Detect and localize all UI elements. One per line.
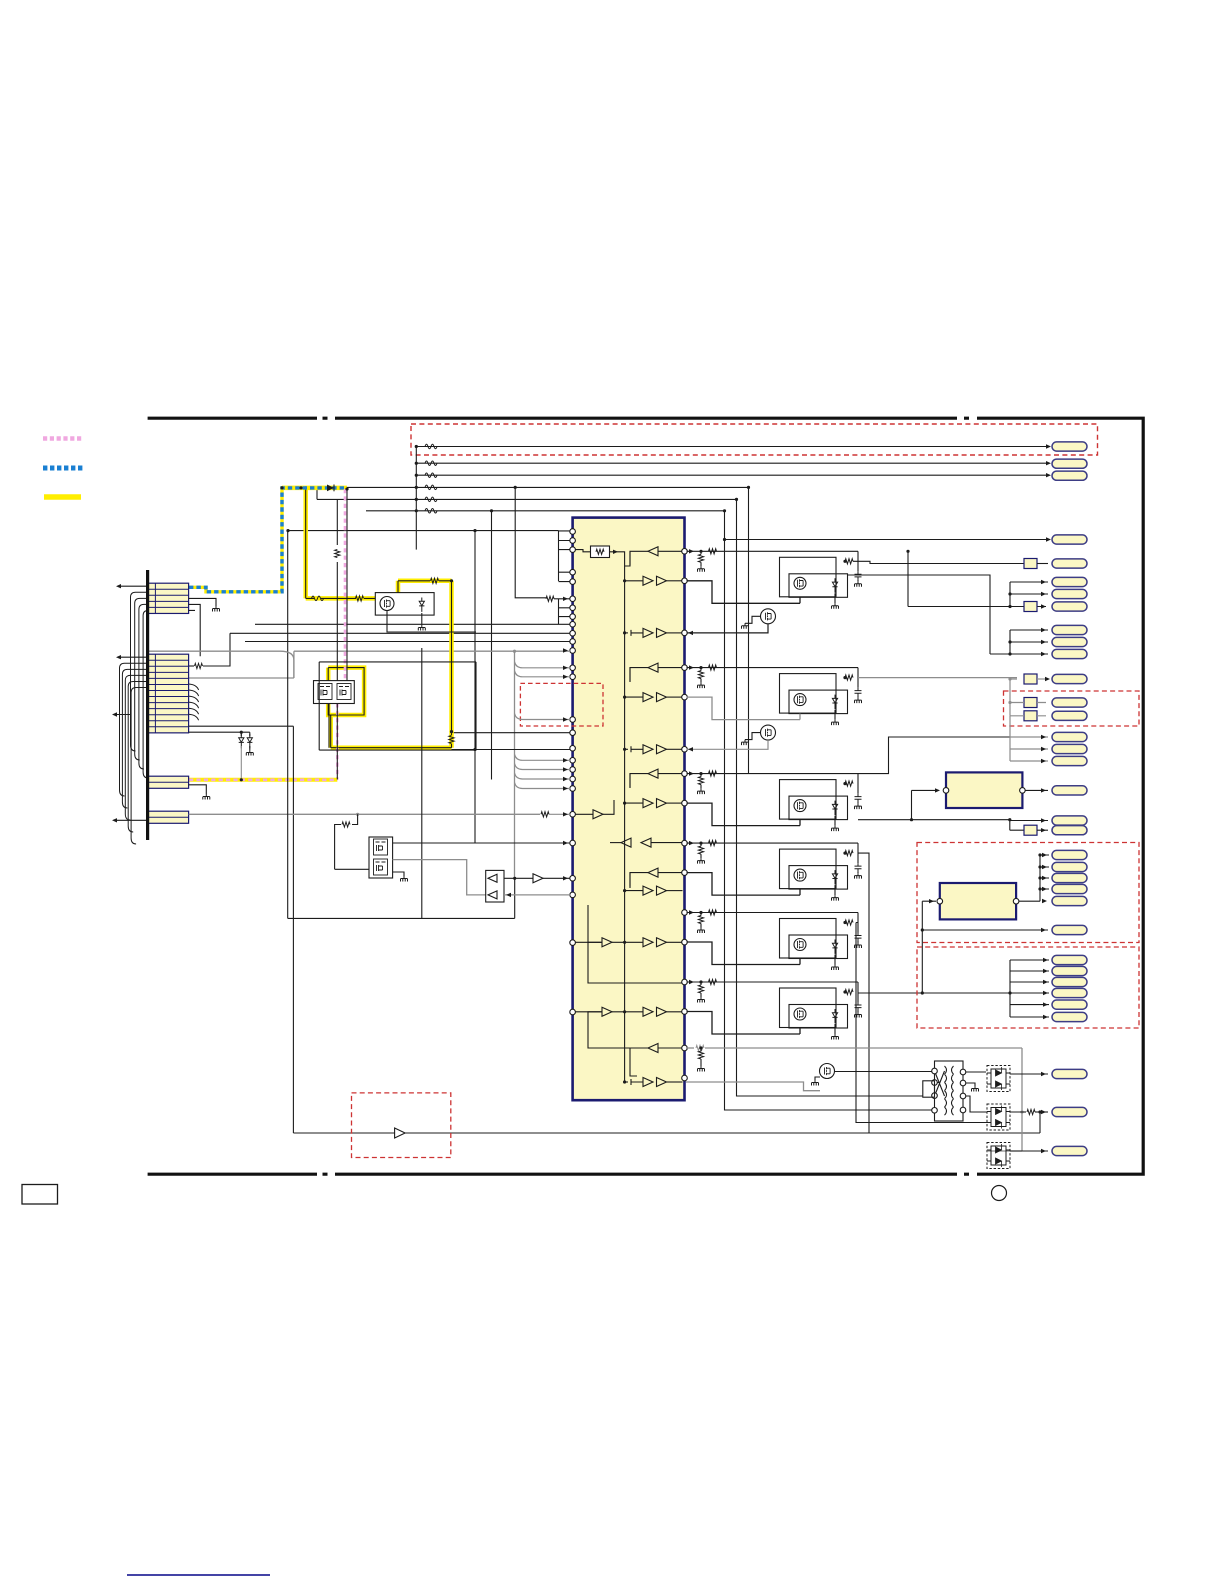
IC internal feed elbows (588, 905, 682, 1076)
connector pill F2 (1052, 862, 1087, 871)
connector pill F5 (1052, 896, 1087, 905)
IC internal buffer row y803 (643, 799, 653, 808)
ground below zener (246, 750, 253, 756)
IC left pin y942 (570, 940, 576, 946)
transformer right pins (960, 1069, 966, 1075)
test point square TP1 (1024, 559, 1037, 569)
IC internal buffer row y842 (621, 838, 631, 847)
IC internal buffer row y942 (602, 938, 612, 947)
IC internal buffer row y551 (648, 547, 658, 556)
wire receiver out to x514 and buffer to IC (504, 877, 533, 879)
gray net from C2 to IC pin 650 (189, 651, 570, 678)
wire branch to CN pill at y540 (725, 539, 1049, 541)
connector pill A0 (1052, 559, 1087, 568)
gray jog x1022 to resistor pill2 (1022, 1111, 1026, 1113)
IC left pin y598 (570, 596, 576, 602)
top red dashed highlight box (411, 424, 1098, 455)
wire G group feed (1009, 960, 1011, 1017)
wire CN4 branch resistor down to dual mosfet box2 (352, 814, 358, 824)
IC internal buffer row y632 (631, 630, 643, 636)
ground below dual box2 (393, 872, 404, 876)
IC left pin y624 (570, 622, 576, 628)
connector pill G5 (1052, 1000, 1087, 1009)
IC left pin y894 (570, 892, 576, 898)
connector pill B1 (1052, 625, 1087, 634)
zener pair to ground and to pink net (239, 734, 244, 748)
IC right pin y1078 (682, 1075, 688, 1081)
IC left pin y719 (570, 717, 576, 723)
IC right pin y872 (682, 870, 688, 876)
wire y1133 up to pill2 line (1039, 1112, 1041, 1133)
IC right pin y551 (682, 549, 688, 555)
connector pill E5 (1052, 816, 1087, 825)
wire feeds into TP4 TP5 (1010, 679, 1046, 716)
wire top bundle line 6 with ferrite bead (415, 509, 418, 512)
IC right pin y632 (682, 630, 688, 636)
yellow highlighted net upper route (282, 488, 452, 748)
wire T1 secondary to photocoupler1 (966, 1071, 986, 1073)
connector pill D1 (1052, 698, 1087, 707)
frame left border redraw over connectors (146, 570, 149, 840)
wire CN2 row1 left with arrow (118, 656, 148, 658)
connector pill G6 (1052, 1012, 1087, 1021)
MOSFET circuit box upper-left Q1 (375, 593, 434, 616)
gray net cell2 to square pill y679 (858, 677, 1017, 679)
connector pill A2 (1052, 589, 1087, 598)
connector pill E1 (1052, 732, 1087, 741)
wire cell1 feed to pill group rows 582-606 (908, 551, 1048, 606)
gray vertical bus left of IC with curved pin feeds (514, 651, 516, 878)
test point square TP2 (1024, 602, 1037, 612)
wire CN4 row2 left with arrow (114, 819, 148, 821)
CN1 row stubs right (189, 604, 201, 656)
revision circle bottom right (992, 1186, 1007, 1201)
connector pill E2 (1052, 744, 1087, 753)
IC left pin y572 (570, 569, 576, 575)
IC left pin y769 (570, 767, 576, 773)
wire vertical x515 from line4 to IC pin 598 (515, 487, 546, 597)
transformer cross wires (935, 1071, 945, 1096)
connector CN top3 (1052, 471, 1087, 480)
connector pill H1 (1052, 1069, 1087, 1078)
driver cell 2 (Q, zener, cap) (687, 667, 859, 669)
IC internal buffer row y773 (648, 769, 658, 778)
connector pill H2 (1052, 1107, 1087, 1116)
IC left pin y650 (570, 648, 576, 654)
IC right pin y580 (682, 578, 688, 584)
test point square TP3 (1024, 674, 1037, 684)
connector pill C1 (1052, 674, 1087, 683)
IC right pin y843 (682, 840, 688, 846)
IC right pin y982 (682, 979, 688, 985)
gray net box2 to dual receiver box (393, 860, 486, 895)
wire box2 to IC pin 843 (393, 842, 570, 844)
IC left pin y641 (570, 639, 576, 645)
ground stub right of CN1 (189, 598, 216, 606)
test point square TP6 (1024, 825, 1037, 835)
connector pill B2 (1052, 637, 1087, 646)
red dashed box right F (917, 843, 1139, 943)
connector CN1 (5-pin) (148, 583, 189, 613)
buffer triangle on bottom long line y1133 (395, 1128, 406, 1138)
connector CN4 (2-pin) (148, 811, 189, 823)
vertical B x293 down to bottom line (293, 726, 1040, 1133)
connector pill F4 (1052, 884, 1087, 893)
connector pill E4 (1052, 786, 1087, 795)
IC left pin y540 (570, 538, 576, 544)
driver cell 1 (Q, zener, cap) (687, 550, 859, 552)
IC left pin y788 (570, 786, 576, 792)
IC internal buffer row y890 (643, 886, 653, 895)
wire C2 row to resistor stub (189, 665, 194, 667)
connector pill E3 (1052, 756, 1087, 765)
wire line5 to vertical x736 (317, 499, 923, 1096)
test point square TP4 (1024, 698, 1037, 708)
transformer left pins (932, 1068, 938, 1074)
dual MOSFET box Q-pair upper (314, 681, 355, 704)
IC internal red dashed box (520, 683, 603, 726)
connector pill G3 (1052, 977, 1087, 986)
photocoupler PC1 (987, 1066, 1010, 1092)
IC left pin y1012 (570, 1009, 576, 1015)
IC left pin y843 (570, 840, 576, 846)
IC left pin y531 (570, 529, 576, 535)
connector CN3 (2-pin) (148, 776, 189, 788)
wire into IC pin 732 (450, 732, 570, 734)
dual receiver triangle box (486, 870, 504, 902)
wire Q1 gate down (387, 611, 476, 633)
IC internal buffer row y697 (643, 693, 653, 702)
IC left pin y814 (570, 812, 576, 818)
IC left pin y779 (570, 776, 576, 782)
driver cell 4 (Q, zener, cap) (687, 842, 859, 844)
connector pill D2 (1052, 711, 1087, 720)
wire line6 to vertical x724 (366, 511, 933, 1110)
wire Q7 drain to transformer (835, 1071, 934, 1073)
relay block 2 yellow (946, 772, 1022, 808)
driver cell 5 (Q, zener, cap) (687, 912, 859, 914)
legend yellow net swatch (44, 494, 81, 500)
IC right pin y773 (682, 771, 688, 777)
wire cell5 out right (856, 923, 988, 1123)
wire block2 out to pill (1025, 789, 1048, 791)
wire vertical x421 long (421, 648, 423, 918)
wire cell6 out to block1 feed net (858, 901, 1010, 993)
legend blue dashed net swatch (43, 466, 83, 471)
ground below CN3 (189, 785, 207, 794)
IC internal buffer row y872 (648, 868, 658, 877)
black verticals beside pink (329, 489, 347, 780)
IC right pin y1048 (682, 1045, 688, 1051)
IC left pin y607 (570, 605, 576, 611)
test point square TP5 (1024, 711, 1037, 721)
wire stub rows into IC pins 607-616 (559, 599, 571, 625)
IC internal resistor box WV (591, 546, 610, 558)
IC left pin y760 (570, 758, 576, 764)
IC left pin y616 (570, 614, 576, 620)
connector pill B3 (1052, 649, 1087, 658)
IC right pin y667 (682, 665, 688, 671)
schematic border frame (148, 418, 1144, 1174)
transformer T1 (935, 1061, 964, 1121)
IC right pin y697 (682, 694, 688, 700)
bottom MOSFET Q7 (820, 1064, 835, 1079)
IC left pin y748 (570, 746, 576, 752)
gray net IC pin1082 to bottom MOSFET (686, 1082, 820, 1091)
connector pill F3 (1052, 873, 1087, 882)
wire CN2 row12 to vertical x293 (189, 725, 294, 727)
pink dashed net route (189, 489, 345, 780)
yellow underlay beneath blue route (189, 488, 347, 592)
wire CN1 row1 left with arrow (118, 585, 148, 587)
IC main block (573, 518, 685, 1101)
gray wire upper left bend (148, 651, 294, 678)
footer link underline (127, 1574, 270, 1576)
ground below Q1 box (421, 613, 423, 625)
connector CN top2 (1052, 459, 1087, 468)
wire y930 single pill from x922 (922, 929, 1048, 931)
page box bottom left (22, 1185, 58, 1205)
gray net IC pin1048 to right column (686, 1047, 694, 1049)
wire top bundle line 1 with ferrite bead (416, 446, 1048, 448)
wire vertical x475 long (474, 531, 476, 843)
connector pill A3 (1052, 602, 1087, 611)
IC internal buffer row y1082 (631, 1079, 643, 1085)
wire top bundle line 2 with ferrite bead (416, 462, 1048, 464)
wire top bundle line 5 with ferrite bead (415, 498, 418, 501)
wire top bundle line 4 with ferrite bead (415, 486, 418, 489)
wire short stub line5-left elbow (316, 487, 318, 499)
red dashed box right mid (1004, 691, 1140, 726)
wire feeds group E (1010, 716, 1048, 761)
wire block1 out to pills (1019, 855, 1049, 901)
IC internal buffer row y580 (643, 576, 653, 585)
IC right pin y749 (682, 747, 688, 753)
blue dashed net route (189, 488, 347, 592)
IC right pin y803 (682, 800, 688, 806)
wire loop rectangle around yellow area (319, 662, 476, 750)
transformer right pin2 to ground (966, 1083, 975, 1086)
photocoupler PC3 (987, 1143, 1010, 1169)
connector pill G2 (1052, 966, 1087, 975)
wire bus vertical left of top bundle (415, 447, 417, 550)
wire cell1 second out to group 630-654 (848, 575, 1048, 654)
IC left pin y633 (570, 631, 576, 637)
relay block 1 yellow (940, 883, 1016, 919)
red dashed box bottom left with buffer (352, 1093, 451, 1158)
dual MOSFET box Q-pair lower (369, 837, 393, 878)
connector pill H3 (1052, 1146, 1087, 1155)
driver cell 6 (Q, zener, cap) (687, 981, 859, 983)
IC left pin y581 (570, 579, 576, 585)
CN2 right curved stubs (189, 684, 199, 690)
legend pink dashed net swatch (43, 436, 83, 441)
connector pill F1 (1052, 850, 1087, 859)
wire top bundle line 3 with ferrite bead (416, 474, 1048, 476)
connector CN top1 (1052, 442, 1087, 451)
connector pill G4 (1052, 988, 1087, 997)
wire into IC pin 748 (452, 749, 571, 751)
IC right pin y1011 (682, 1009, 688, 1015)
IC internal buffer row y667 (648, 663, 658, 672)
IC left pin y878 (570, 876, 576, 882)
wire CN2 row13 to zener pair (189, 732, 250, 736)
wire cell3 outB to block2 and pills (858, 790, 1048, 830)
IC left pin y732 (570, 730, 576, 736)
IC internal buffer row y814 (593, 810, 603, 819)
IC left pin y676 (570, 674, 576, 680)
IC internal buffer row y1048 (648, 1044, 658, 1053)
diode on blue line (327, 485, 334, 492)
wire vertical A x287 from y531 to y919 (288, 531, 515, 919)
connector CN mid1 (1052, 535, 1087, 544)
wire cell3 outA up to E group feed (858, 737, 1010, 774)
connector pill E6 (1052, 826, 1087, 835)
IC right pin y942 (682, 939, 688, 945)
gray net CN4 row1 to IC pin 814 (189, 813, 540, 815)
IC left pin y549 (570, 547, 576, 553)
wire cell4 out right (858, 853, 869, 1133)
connector pill F6 (1052, 925, 1087, 934)
transformer left jumper box (923, 1081, 935, 1097)
red dashed box right G (917, 947, 1139, 1028)
wire bus into IC pins 531-549 (288, 531, 570, 582)
IC left pin y667 (570, 665, 576, 671)
wire rows into IC pins 624-641 (230, 624, 570, 641)
yellow segment under pink to C3 (189, 778, 337, 782)
driver cell 3 (Q, zener, cap) (687, 773, 859, 775)
wire vertical x491 from line6 (491, 511, 493, 780)
photocoupler PC2 (987, 1104, 1010, 1130)
wire cell1 out to TP square y563 (853, 561, 1024, 563)
connector pill A1 (1052, 577, 1087, 586)
IC internal buffer row y1011 (602, 1007, 612, 1016)
IC internal buffer row y749 (631, 746, 643, 752)
gray net IC pin 895 to receiver (504, 894, 570, 896)
wire line4 to vertical x748 (282, 487, 749, 773)
connector pill G1 (1052, 955, 1087, 964)
left harness curves from CN2 rows (120, 663, 148, 796)
connector CN2 (13-pin) (148, 654, 189, 733)
yellow net black core wires (282, 488, 452, 748)
left harness curves from CN1 rows (131, 592, 148, 751)
IC right pin y912 (682, 910, 688, 916)
wire left edge arrow y714 (114, 714, 131, 716)
